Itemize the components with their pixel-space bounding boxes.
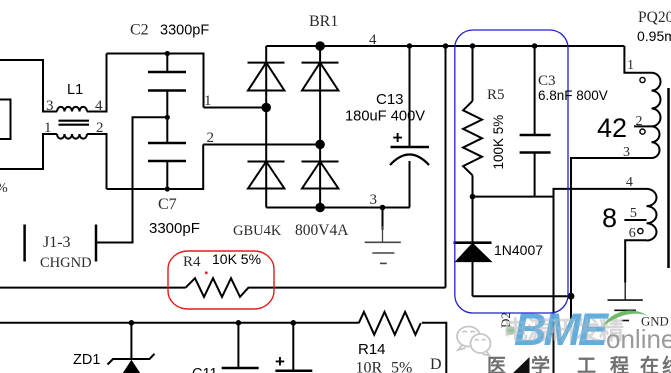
svg-text:8: 8 xyxy=(602,203,617,233)
wire diode anode to pin3 node xyxy=(473,295,572,297)
connector J1-3 left bar xyxy=(23,225,26,262)
svg-text:3: 3 xyxy=(623,145,630,160)
node dot C3 top xyxy=(532,43,538,49)
svg-text:C7: C7 xyxy=(158,196,177,213)
svg-text:4: 4 xyxy=(369,32,377,48)
capacitor C13 top lead xyxy=(409,46,411,147)
wire pin3 node stub down xyxy=(570,296,572,327)
ground node 3 stem xyxy=(382,208,384,231)
wire bridge bottom to C13 xyxy=(266,207,410,209)
svg-text:C3: C3 xyxy=(538,73,556,89)
capacitor C7 plates xyxy=(148,143,186,161)
svg-text:R4: R4 xyxy=(183,254,201,270)
ground GND secondary xyxy=(608,283,643,321)
wire L1 pin2 down to bottom rail xyxy=(87,134,107,189)
resistor R5 xyxy=(463,101,482,175)
svg-text:%: % xyxy=(0,181,8,196)
svg-text:工: 工 xyxy=(577,356,596,373)
capacitor C7 lead top xyxy=(166,117,168,143)
diode BR1-D2 xyxy=(248,162,285,189)
resistor R5 top lead xyxy=(472,46,474,101)
wire pin3 to clamp xyxy=(571,158,652,296)
svg-text:GBU4K: GBU4K xyxy=(233,223,282,239)
svg-text:6: 6 xyxy=(629,226,636,241)
svg-text:PQ20: PQ20 xyxy=(638,9,671,26)
transformer polarity circles xyxy=(638,77,645,233)
svg-text:C13: C13 xyxy=(376,91,404,108)
capacitor C7 lead bottom xyxy=(166,161,168,189)
svg-text:5%: 5% xyxy=(391,360,412,373)
connector J1-3 right bar xyxy=(95,225,98,262)
svg-text:1: 1 xyxy=(204,93,212,109)
svg-text:2: 2 xyxy=(636,114,643,129)
svg-text:6.8nF 800V: 6.8nF 800V xyxy=(538,88,608,103)
svg-text:100K 5%: 100K 5% xyxy=(491,115,506,170)
node dot C2 top xyxy=(165,51,170,56)
svg-text:学: 学 xyxy=(531,354,550,373)
node dot C12 xyxy=(291,320,297,326)
node dot R4 riser xyxy=(443,43,449,49)
wire R14 right xyxy=(422,323,447,373)
wire node 1 to bridge xyxy=(204,107,267,109)
svg-text:1N4007: 1N4007 xyxy=(494,242,543,258)
diode D 1N4007 bottom lead xyxy=(472,261,474,296)
diode BR1-D1 xyxy=(248,63,285,91)
svg-text:10R: 10R xyxy=(356,360,383,373)
svg-text:R14: R14 xyxy=(358,341,386,358)
blue highlight box around snubber xyxy=(455,30,568,313)
capacitor C13 bottom lead xyxy=(409,161,411,208)
zener diode ZD1 lead xyxy=(130,323,132,359)
svg-text:2: 2 xyxy=(207,130,215,146)
svg-text:CHGND: CHGND xyxy=(40,255,92,271)
capacitor C3 bottom lead xyxy=(534,153,536,197)
capacitor C2 lead bottom xyxy=(166,91,168,118)
wire L1 pin4 to C2 top rail xyxy=(87,54,107,112)
svg-text:线: 线 xyxy=(662,354,671,373)
svg-text:4: 4 xyxy=(95,98,103,114)
wire input bottom to L1 pin1 xyxy=(0,134,57,169)
svg-text:程: 程 xyxy=(610,355,629,373)
bridge BR1 right column xyxy=(319,46,321,208)
capacitor C3 top lead xyxy=(534,46,536,135)
svg-text:医: 医 xyxy=(487,356,506,373)
wire input top to L1 pin3 xyxy=(0,60,57,112)
resistor R4 xyxy=(186,278,249,297)
wire R4 rail right xyxy=(249,287,446,289)
svg-text:3: 3 xyxy=(46,98,54,114)
diode D 1N4007 body (filled) xyxy=(454,243,492,262)
wire bottom rail of C2 block xyxy=(107,145,204,190)
svg-text:BR1: BR1 xyxy=(309,13,338,30)
svg-text:在: 在 xyxy=(640,354,659,373)
svg-text:GND: GND xyxy=(641,315,669,329)
svg-text:J1-3: J1-3 xyxy=(43,234,71,251)
red highlight box around R4 xyxy=(168,251,274,309)
wire cap midpoint to CHGND xyxy=(96,117,167,242)
svg-text:online: online xyxy=(606,324,671,354)
svg-text:L1: L1 xyxy=(67,82,83,98)
transformer T1 secondary winding xyxy=(647,189,657,241)
wire R4 rail left xyxy=(0,287,186,289)
bridge BR1 left column xyxy=(265,46,267,208)
transformer core xyxy=(667,88,670,268)
red dot xyxy=(205,271,208,274)
node dot bridge bottom xyxy=(315,203,325,213)
transformer T1 primary tap pin2 xyxy=(634,125,652,127)
inductor L1 bottom winding xyxy=(57,134,87,139)
svg-text:D: D xyxy=(430,356,442,373)
inductor L1 top winding xyxy=(57,107,87,112)
wire node4 down to R4 rail xyxy=(445,46,447,288)
wire secondary pin4 xyxy=(554,189,647,373)
node dot cap midpoint xyxy=(165,115,170,120)
zener ZD1 bar xyxy=(108,354,155,365)
capacitor C13 curved plate xyxy=(390,155,429,166)
svg-text:4: 4 xyxy=(626,175,633,190)
node dot snubber bottom xyxy=(470,194,476,200)
svg-text:+: + xyxy=(393,128,403,148)
node dot 2 (bridge right mid) xyxy=(315,140,325,150)
resistor R5 bottom lead xyxy=(472,175,474,196)
diode BR1-D4 xyxy=(302,162,339,189)
node dot ground3 xyxy=(380,205,386,211)
svg-text:+: + xyxy=(275,352,285,371)
node dot R5 top xyxy=(470,43,476,49)
capacitor C13 top plate xyxy=(391,146,430,149)
row2 chinese xyxy=(487,354,671,373)
wire C2 top rail xyxy=(107,54,204,108)
capacitor C2 plates xyxy=(148,72,186,91)
ground (earth) at node 3 xyxy=(365,226,401,263)
svg-text:3300pF: 3300pF xyxy=(160,23,209,39)
L1 core lines xyxy=(59,121,90,125)
wire node 4 top rail xyxy=(266,45,624,47)
capacitor C3 plates xyxy=(520,135,551,153)
wire secondary pin6 to ground xyxy=(625,240,646,282)
diode D 1N4007 top lead xyxy=(472,197,474,243)
node dot 1 (bridge left mid) xyxy=(261,103,271,113)
node dot C11 xyxy=(236,320,242,326)
svg-text:1: 1 xyxy=(44,120,52,136)
svg-text:3: 3 xyxy=(370,192,378,208)
capacitor C11 lead xyxy=(237,323,239,368)
node dot ZD1 xyxy=(129,320,135,326)
svg-text:180uF 400V: 180uF 400V xyxy=(345,109,425,125)
input connector box J (left edge, clipped) xyxy=(0,100,11,140)
svg-text:R5: R5 xyxy=(487,87,505,103)
capacitor C12 plate xyxy=(275,370,312,373)
green swoosh xyxy=(603,311,648,326)
svg-text:C11: C11 xyxy=(192,366,218,373)
svg-text:10K 5%: 10K 5% xyxy=(212,251,261,267)
resistor R14 xyxy=(359,312,421,335)
wechat icon xyxy=(457,327,491,356)
zener ZD1 triangle (clipped at bottom) xyxy=(123,360,141,373)
green dot xyxy=(506,326,515,335)
capacitor C2 lead top xyxy=(166,54,168,73)
wire snubber bottom xyxy=(473,196,554,198)
capacitor C12 lead (polarized) xyxy=(292,323,294,371)
logo triangle xyxy=(513,357,530,373)
svg-text:C2: C2 xyxy=(130,22,149,39)
node dot C7 bottom xyxy=(165,186,170,191)
svg-text:42: 42 xyxy=(597,113,627,143)
transformer T1 secondary tap pin5 xyxy=(624,219,646,221)
node dot bridge top xyxy=(315,41,325,51)
svg-text:800V4A: 800V4A xyxy=(295,222,349,239)
svg-text:3300pF: 3300pF xyxy=(149,220,200,237)
svg-text:1: 1 xyxy=(627,58,634,73)
capacitor C11 plate xyxy=(222,367,259,370)
diode BR1-D3 xyxy=(302,63,339,91)
transformer T1 primary winding xyxy=(652,73,661,158)
svg-text:ZD1: ZD1 xyxy=(73,352,100,368)
wire node 2 to bridge xyxy=(203,144,320,146)
node dot clamp to pin3 xyxy=(568,293,575,300)
svg-text:0.95mH: 0.95mH xyxy=(637,28,671,44)
wire transformer pin1 from node4 xyxy=(624,46,651,73)
svg-text:5: 5 xyxy=(630,206,637,221)
svg-text:2: 2 xyxy=(96,120,104,136)
wire output rail left xyxy=(0,322,359,324)
node dot C13 top xyxy=(407,43,413,49)
